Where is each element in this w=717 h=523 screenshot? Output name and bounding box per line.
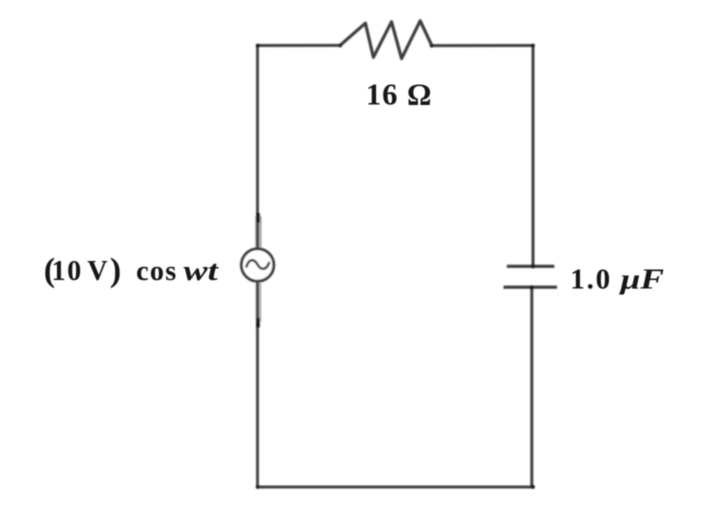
- junction dot top-right corner: [531, 44, 535, 48]
- wire top-left to resistor: [258, 44, 341, 47]
- AC source V1 circle: [241, 249, 273, 281]
- capacitor C top plate: [507, 265, 555, 268]
- AC source V1 lead halo top: [255, 216, 261, 250]
- capacitor C bottom lead: [530, 288, 533, 489]
- svg-text:16 Ω: 16 Ω: [366, 78, 433, 112]
- resistor R (zigzag): [340, 21, 432, 59]
- capacitor C bottom plate: [504, 286, 558, 289]
- junction dot bottom-left corner: [256, 485, 260, 489]
- junction dot resistor right lead: [430, 44, 434, 48]
- junction dot bottom-right corner: [531, 485, 535, 489]
- AC source V1 lead tick bottom: [256, 318, 260, 328]
- junction dot capacitor bottom plate: [530, 285, 534, 289]
- wire bottom horizontal: [258, 486, 534, 489]
- capacitor C top lead: [532, 44, 535, 265]
- AC source V1 lead halo bottom: [255, 283, 261, 322]
- AC source V1 lead tick top: [256, 213, 260, 223]
- junction dot resistor left lead: [338, 44, 342, 48]
- junction dot top-left corner: [256, 44, 260, 48]
- wire left vertical: [256, 46, 259, 488]
- AC source V1 sine wave: [247, 260, 270, 269]
- wire resistor to top-right: [432, 44, 533, 47]
- junction dot capacitor top plate: [531, 264, 535, 268]
- svg-text:1.0μF: 1.0μF: [570, 263, 664, 295]
- svg-text:(10V)coswt: (10V)coswt: [44, 252, 219, 289]
